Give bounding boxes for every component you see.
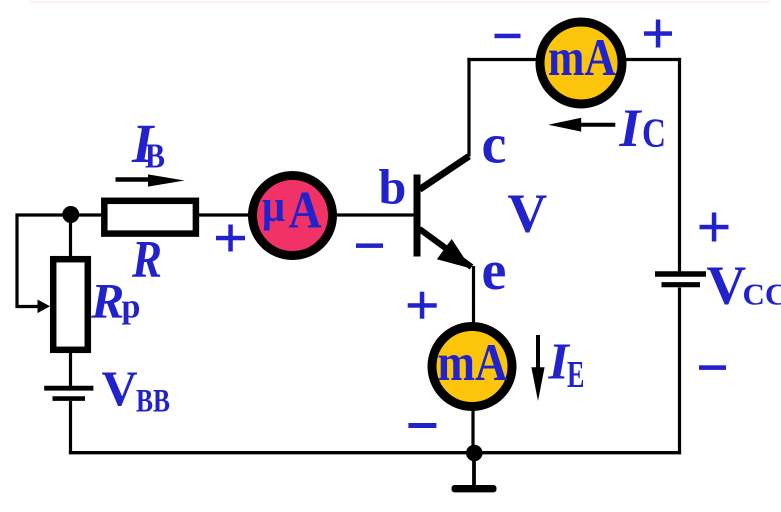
label IE with arrow	[531, 334, 584, 402]
plus sign VCC	[700, 213, 729, 242]
wire feedback loop to Rp wiper	[17, 215, 71, 307]
wire node to Rp top	[69, 213, 72, 257]
svg-text:R: R	[90, 273, 124, 329]
wiper arrowhead	[38, 300, 51, 314]
potentiometer Rp	[53, 259, 88, 350]
ground	[452, 453, 497, 492]
svg-text:BB: BB	[136, 384, 170, 420]
svg-text:V: V	[102, 360, 138, 416]
svg-text:E: E	[567, 354, 585, 396]
svg-text:C: C	[642, 110, 666, 156]
plus sign mA top	[644, 20, 672, 48]
svg-text:mA: mA	[438, 334, 508, 392]
wire emitter riser	[472, 266, 475, 324]
plus sign uA	[216, 225, 245, 252]
svg-text:e: e	[482, 240, 507, 302]
ammeter uA (microammeter)	[253, 176, 333, 256]
svg-text:μ: μ	[262, 180, 285, 231]
plus sign mA bottom	[408, 292, 437, 319]
svg-text:R: R	[131, 231, 162, 289]
wire bottom rail	[69, 451, 681, 454]
battery VBB	[44, 388, 93, 398]
label IC with arrow	[548, 98, 666, 158]
svg-text:V: V	[508, 183, 548, 244]
wire emitter meter to bottom rail	[471, 409, 474, 453]
ammeter mA emitter	[432, 327, 512, 407]
svg-text:CC: CC	[743, 277, 781, 312]
wire right riser upper (VCC+)	[678, 58, 681, 272]
wire left branch vertical (VBB to bottom rail)	[69, 401, 72, 454]
wire main horizontal (node to base)	[69, 213, 414, 216]
battery VCC	[655, 274, 706, 285]
ammeter mA collector	[540, 22, 622, 104]
node E (junction dot bottom)	[466, 445, 483, 462]
svg-text:B: B	[145, 137, 165, 176]
minus sign uA	[356, 243, 383, 248]
label IB with arrow	[116, 113, 185, 187]
wire right riser lower (VCC-)	[678, 288, 681, 455]
svg-text:p: p	[122, 289, 141, 326]
minus sign VCC	[699, 365, 726, 370]
wire collector riser	[467, 58, 470, 157]
node B (junction dot left)	[62, 206, 79, 223]
svg-text:A: A	[289, 182, 322, 240]
wire top from collector corner to VCC corner	[467, 58, 681, 61]
svg-text:mA: mA	[548, 29, 616, 87]
transistor V (NPN)	[414, 156, 472, 268]
svg-text:V: V	[707, 255, 747, 316]
minus sign mA bottom	[408, 423, 436, 428]
minus sign mA top	[495, 34, 521, 39]
svg-text:b: b	[379, 159, 407, 215]
resistor R	[104, 201, 196, 234]
svg-text:I: I	[619, 98, 643, 158]
svg-text:c: c	[482, 114, 507, 176]
wire Rp bottom to VBB	[69, 352, 72, 386]
